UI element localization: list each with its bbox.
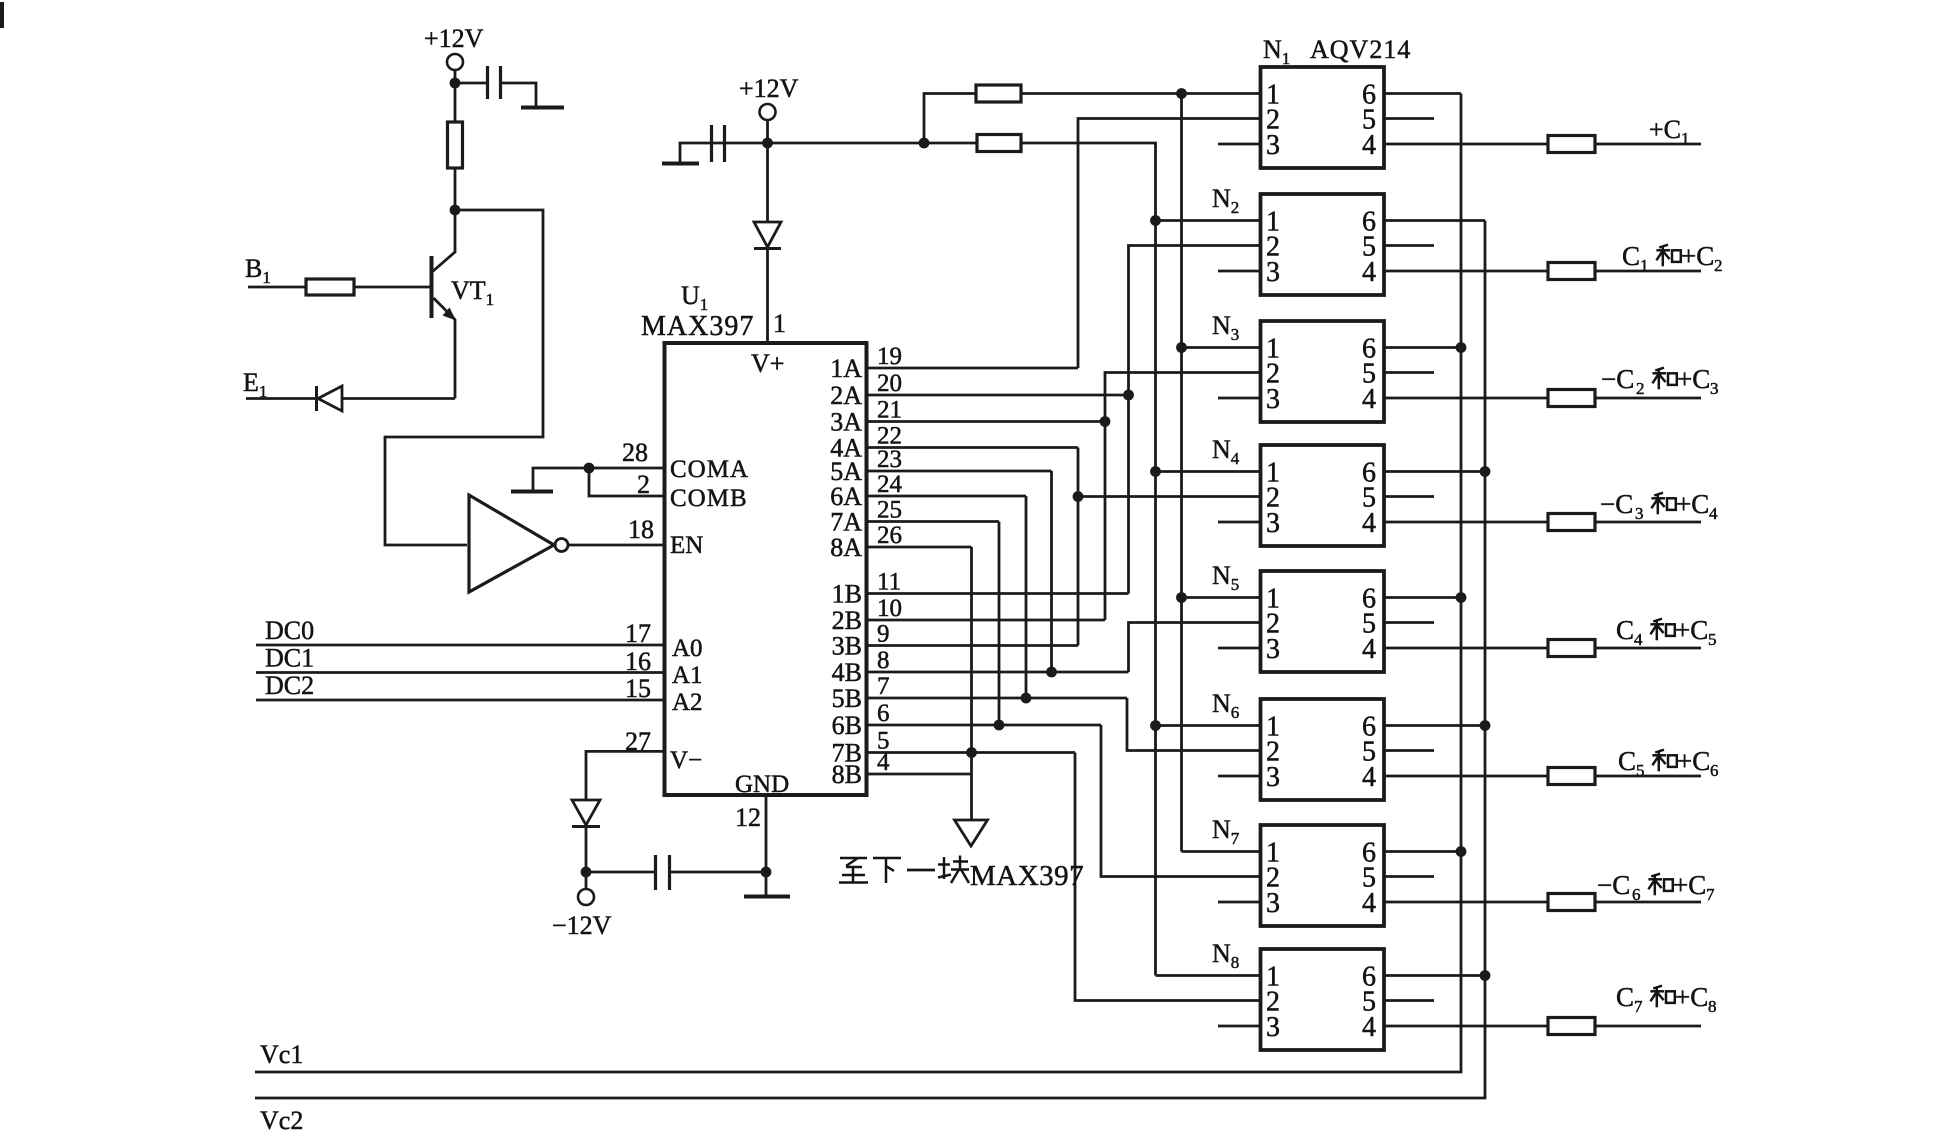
svg-text:3B: 3B <box>832 632 862 661</box>
wire +12V terminal to node <box>454 70 457 79</box>
wire N3 pin5 stub <box>1384 371 1434 374</box>
wire N5 pin3 stub <box>1218 647 1261 650</box>
wire channel6: 6A down to 5B <box>1025 496 1028 698</box>
terminal circle +12V mux <box>760 104 776 120</box>
svg-text:DC0: DC0 <box>265 616 314 645</box>
svg-text:6: 6 <box>877 700 890 727</box>
wire N1 pin4 output to resistor <box>1384 143 1548 146</box>
wire rail to capacitor <box>710 142 768 145</box>
svg-text:C: C <box>1616 982 1634 1012</box>
wire N8 pin6 to collector bus <box>1384 974 1485 977</box>
svg-text:6B: 6B <box>832 711 862 740</box>
svg-text:1: 1 <box>1681 129 1690 148</box>
svg-text:+C: +C <box>1675 615 1708 645</box>
svg-text:11: 11 <box>877 569 901 596</box>
wire output 2 <box>1595 270 1701 273</box>
junction dot 3A on channel3 <box>1100 416 1111 427</box>
svg-text:+C: +C <box>1675 982 1708 1012</box>
svg-text:8: 8 <box>1708 997 1717 1016</box>
svg-text:3A: 3A <box>830 408 862 437</box>
svg-text:4B: 4B <box>832 658 862 687</box>
svg-text:A1: A1 <box>672 662 703 689</box>
svg-text:5: 5 <box>1636 761 1645 780</box>
svg-text:DC1: DC1 <box>265 644 314 673</box>
junction dot GND node <box>761 867 772 878</box>
wire pin6 collector bus odd (to Vc1) <box>255 94 1461 1073</box>
diode D (V- supply) <box>572 800 600 825</box>
wire -12V node to capacitor <box>586 871 654 874</box>
junction dot 2A on channel2 <box>1123 390 1134 401</box>
wire 2B (pin 10) stub from IC <box>867 619 1106 622</box>
wire 4B (pin 8) stub from IC <box>867 671 1129 674</box>
wire channel6 dropper 5B to N6 pin2 <box>1127 698 1261 751</box>
wire 7B (pin 5) stub from IC <box>867 751 1076 754</box>
svg-text:3: 3 <box>1266 384 1280 415</box>
resistor R2 (N even pin1 feed) <box>977 135 1021 152</box>
svg-text:Vc2: Vc2 <box>260 1106 303 1133</box>
svg-text:3: 3 <box>1266 130 1280 161</box>
wire channel1 vertical (1A to N1 pin2) <box>1078 119 1261 369</box>
wire N5 pin1 from bus <box>1182 596 1261 599</box>
resistor R1 (N odd pin1 feed) <box>976 85 1021 102</box>
svg-text:−C: −C <box>1597 870 1630 900</box>
svg-text:4: 4 <box>1634 630 1643 649</box>
svg-text:6: 6 <box>1710 761 1719 780</box>
net label output 3 <box>1601 364 1719 398</box>
capacitor C (top-left decoupling) <box>486 66 489 99</box>
wire base to resistor <box>354 286 430 289</box>
wire B1 to resistor <box>248 286 306 289</box>
optocoupler N8 AQV214 body <box>1261 949 1385 1050</box>
wire output 3 <box>1595 397 1701 400</box>
svg-text:3: 3 <box>1266 257 1280 288</box>
wire 3B (pin 9) stub from IC <box>867 644 1079 647</box>
wire node to resistor R (collector) <box>454 87 457 122</box>
wire N8 pin4 output to resistor <box>1384 1025 1548 1028</box>
svg-text:25: 25 <box>877 497 902 524</box>
svg-text:V+: V+ <box>751 349 784 378</box>
wire N2 pin5 stub <box>1384 244 1434 247</box>
svg-text:MAX397: MAX397 <box>970 860 1084 892</box>
wire 4A (pin 22) <box>867 446 1079 449</box>
svg-text:8A: 8A <box>830 533 862 562</box>
svg-text:24: 24 <box>877 471 903 498</box>
diode D (V+ pin 1) <box>766 143 769 222</box>
capacitor C (V- supply) <box>654 855 657 890</box>
resistor R out4 <box>1548 514 1595 531</box>
svg-text:3: 3 <box>1635 504 1644 523</box>
wire 8B (pin 4) stub from IC <box>867 773 972 776</box>
svg-text:C: C <box>1622 241 1640 271</box>
svg-text:18: 18 <box>628 515 654 544</box>
terminal circle +12V <box>447 54 463 70</box>
wire N6 pin3 stub <box>1218 775 1261 778</box>
svg-text:3: 3 <box>1266 1012 1280 1043</box>
wire N4 pin2 <box>1078 495 1261 498</box>
wire N8 pin3 stub <box>1218 1025 1261 1028</box>
wire channel8 dropper 7B to N8 pin2 <box>1075 753 1261 1001</box>
wire channel7: 7A down to 6B <box>998 522 1001 726</box>
svg-text:9: 9 <box>877 621 890 648</box>
terminal circle -12V <box>578 889 594 905</box>
wire N6 pin1 from bus <box>1156 724 1261 727</box>
svg-text:C: C <box>1616 615 1634 645</box>
net label output 1 (+C1) <box>1649 115 1690 148</box>
svg-text:20: 20 <box>877 370 902 397</box>
wire even bus to N8 pin1 <box>1156 974 1261 977</box>
wire emitter down <box>454 319 457 399</box>
svg-text:A2: A2 <box>672 689 703 716</box>
ground (top-left) <box>521 106 564 110</box>
junction dot +12V rail <box>762 138 773 149</box>
wire V- pin 27 <box>586 751 665 800</box>
svg-text:8: 8 <box>877 647 890 674</box>
svg-text:5: 5 <box>1708 630 1717 649</box>
svg-text:MAX397: MAX397 <box>641 311 754 342</box>
svg-text:4: 4 <box>1362 762 1376 793</box>
optocoupler N5 AQV214 body <box>1261 571 1385 672</box>
wire N4 pin1 from bus <box>1156 470 1261 473</box>
svg-text:2: 2 <box>637 470 650 499</box>
wire N2 pin4 output to resistor <box>1384 270 1548 273</box>
svg-text:4: 4 <box>1362 634 1376 665</box>
svg-text:4: 4 <box>1362 257 1376 288</box>
junction dots even pin1 bus <box>1150 215 1161 226</box>
svg-text:3: 3 <box>1266 762 1280 793</box>
svg-text:+C: +C <box>1673 870 1706 900</box>
junction dot below +12V terminal <box>450 78 461 89</box>
resistor R out5 <box>1548 640 1595 657</box>
svg-text:+C: +C <box>1677 746 1710 776</box>
svg-text:1A: 1A <box>830 354 862 383</box>
svg-text:3: 3 <box>1266 634 1280 665</box>
wire N2 pin3 stub <box>1218 270 1261 273</box>
wire pin6 collector bus even (to Vc2) <box>255 221 1485 1099</box>
svg-text:1B: 1B <box>832 580 862 609</box>
svg-text:28: 28 <box>622 438 648 467</box>
wire N4 pin6 to collector bus <box>1384 470 1485 473</box>
ground (mux supply) <box>662 162 699 166</box>
net label output 8 <box>1616 982 1717 1016</box>
wire 2A (pin 20) <box>867 394 1129 397</box>
wire channel5: 5A down to 4B <box>1050 471 1053 672</box>
junction dot odd pin1 bus top <box>1176 88 1187 99</box>
net label output 2 <box>1622 241 1723 275</box>
svg-text:23: 23 <box>877 446 902 473</box>
wire DC0 to A0 pin <box>256 644 665 647</box>
transistor Q VT1 emitter lead with arrow <box>434 298 456 320</box>
inverter U2 output bubble <box>555 539 568 552</box>
transistor Q VT1 collector lead <box>454 210 457 253</box>
wire 8A (pin 26) <box>867 546 972 549</box>
wire N7 pin5 stub <box>1384 875 1434 878</box>
svg-text:3: 3 <box>1266 508 1280 539</box>
svg-text:DC2: DC2 <box>265 671 314 700</box>
wire N3 pin4 output to resistor <box>1384 397 1548 400</box>
svg-text:4: 4 <box>1709 504 1718 523</box>
svg-text:C: C <box>1618 746 1636 776</box>
svg-text:3: 3 <box>1266 888 1280 919</box>
svg-text:19: 19 <box>877 343 902 370</box>
wire capacitor to ground <box>502 83 536 106</box>
wire N3 pin3 stub <box>1218 397 1261 400</box>
capacitor C (mux supply) <box>710 125 713 162</box>
wire 3A (pin 21) <box>867 420 1106 423</box>
svg-text:7: 7 <box>1634 997 1643 1016</box>
wire channel5 riser 4B to N5 pin2 <box>1129 623 1261 673</box>
optocoupler N7 AQV214 body <box>1261 825 1385 926</box>
wire -12V node to terminal <box>585 872 588 889</box>
wire 1A (pin 19) <box>867 367 1079 370</box>
wire N1 pin6 to collector bus <box>1384 92 1461 95</box>
resistor R out6 <box>1548 768 1595 785</box>
wire N6 pin6 to collector bus <box>1384 724 1485 727</box>
wire odd pin1 bus <box>1180 94 1183 852</box>
ground (COMA) <box>511 490 553 494</box>
junction dot 6A joins 5B <box>1021 693 1032 704</box>
junction dot 7A joins 6B <box>994 720 1005 731</box>
wire output 4 <box>1595 521 1701 524</box>
wire capacitor to ground (mux) <box>680 143 710 162</box>
svg-text:8B: 8B <box>832 760 862 789</box>
svg-text:−C: −C <box>1600 489 1633 519</box>
optocoupler N6 AQV214 body <box>1261 699 1385 800</box>
svg-text:7: 7 <box>877 673 890 700</box>
wire inverter output to EN pin 18 <box>568 544 665 547</box>
ground (GND pin) <box>744 895 790 899</box>
svg-text:2: 2 <box>1714 256 1723 275</box>
wire +12V rail to resistor R2 and bus corner <box>768 142 978 145</box>
wire node to capacitor C (top-left) <box>455 82 486 85</box>
junction dot -12V node <box>581 867 592 878</box>
svg-text:26: 26 <box>877 522 902 549</box>
resistor R base (B1) <box>306 279 354 295</box>
wire odd pin1 bus junctions <box>1176 342 1187 353</box>
wire DC1 to A1 pin <box>256 671 665 674</box>
svg-text:−C: −C <box>1601 364 1634 394</box>
wire 7A (pin 25) <box>867 520 1000 523</box>
svg-text:4: 4 <box>1362 888 1376 919</box>
svg-text:16: 16 <box>625 647 651 676</box>
svg-text:27: 27 <box>625 727 651 756</box>
wire channel2 vertical (N2 pin2 - 2A - 1B) <box>1129 246 1261 594</box>
wire COMA node to ground <box>533 468 589 490</box>
svg-text:4: 4 <box>1362 508 1376 539</box>
svg-text:5B: 5B <box>832 684 862 713</box>
svg-text:2A: 2A <box>830 381 862 410</box>
resistor R out2 <box>1548 263 1595 280</box>
wire output 6 <box>1595 775 1701 778</box>
wire N8 pin5 stub <box>1384 999 1434 1002</box>
op-amp/mux IC U1 MAX397 body <box>665 343 867 795</box>
wire N6 pin4 output to resistor <box>1384 775 1548 778</box>
wire N7 pin6 to collector bus <box>1384 850 1461 853</box>
wire COMA node to COMB pin 2 <box>589 468 665 496</box>
svg-text:V−: V− <box>670 747 702 774</box>
wire 6A (pin 24) <box>867 495 1027 498</box>
resistor R collector pull-up <box>448 122 463 168</box>
svg-text:+C: +C <box>1681 241 1714 271</box>
wire N1 pin3 stub <box>1218 143 1261 146</box>
svg-text:−12V: −12V <box>552 911 612 940</box>
svg-text:+12V: +12V <box>739 74 799 103</box>
wire COMA pin 28 <box>589 467 665 470</box>
wire resistor to collector node <box>454 168 457 210</box>
junction dots pin6 even bus <box>1480 466 1491 477</box>
junction dot 5A joins 4B <box>1046 667 1057 678</box>
wire 5A (pin 23) <box>867 470 1052 473</box>
arrow to next MAX397 stage <box>955 820 988 846</box>
svg-text:12: 12 <box>735 803 761 832</box>
inverter U2 triangle <box>469 495 554 592</box>
svg-text:COMB: COMB <box>670 485 748 512</box>
wire N5 pin6 to collector bus <box>1384 596 1461 599</box>
wire 1B (pin 11) stub from IC <box>867 592 1129 595</box>
wire +12V terminal down to rail <box>766 120 769 143</box>
svg-text:4: 4 <box>1362 384 1376 415</box>
wire N7 pin4 output to resistor <box>1384 901 1548 904</box>
wire N2 pin6 to collector bus <box>1384 219 1485 222</box>
svg-text:+C: +C <box>1676 489 1709 519</box>
wire 6B (pin 6) stub from IC <box>867 724 1102 727</box>
wire N6 pin5 stub <box>1384 749 1434 752</box>
resistor R out8 <box>1548 1018 1595 1035</box>
wire N7 pin3 stub <box>1218 901 1261 904</box>
wire N1 pin5 stub <box>1384 117 1434 120</box>
svg-text:4: 4 <box>1362 130 1376 161</box>
junction dot N4 pin2 on channel4 <box>1073 491 1084 502</box>
svg-text:6: 6 <box>1632 885 1641 904</box>
wire R1 to N1 pin1 <box>1021 92 1261 95</box>
wire collector node to inverter input (right-down-left-down) <box>385 210 543 545</box>
svg-text:1: 1 <box>773 309 786 338</box>
svg-text:COMA: COMA <box>670 456 749 483</box>
wire branch up to resistor R1 <box>924 94 976 144</box>
svg-text:AQV214: AQV214 <box>1310 35 1411 64</box>
net label output 4 <box>1600 489 1718 523</box>
label to-next-MAX397 (Chinese) <box>839 858 868 883</box>
optocoupler N3 AQV214 body <box>1261 321 1385 422</box>
junction dots pin6 odd bus <box>1456 342 1467 353</box>
wire diode to E1 <box>246 397 316 400</box>
wire channel8: 8A down through 7B to next-stage arrow <box>970 547 973 820</box>
wire odd bus to N7 pin1 <box>1182 850 1261 853</box>
wire channel7 dropper 6B to N7 pin2 <box>1101 725 1261 877</box>
svg-text:4: 4 <box>877 749 890 776</box>
wire diode to IC V+ pin <box>766 250 769 343</box>
svg-text:A0: A0 <box>672 635 703 662</box>
optocoupler N4 AQV214 body <box>1261 445 1385 546</box>
wire DC2 to A2 pin <box>256 699 665 702</box>
wire R2 to even bus corner <box>1021 143 1156 976</box>
junction dot rail/resistor-R1 branch <box>919 138 930 149</box>
wire N5 pin4 output to resistor <box>1384 647 1548 650</box>
wire N5 pin5 stub <box>1384 621 1434 624</box>
svg-text:10: 10 <box>877 595 902 622</box>
wire output 8 <box>1595 1025 1701 1028</box>
resistor R out7 <box>1548 894 1595 911</box>
net label output 6 <box>1618 746 1719 780</box>
wire channel4 vertical (4A - N4 pin2 - 3B) <box>1077 448 1080 646</box>
wire emitter to diode <box>342 397 455 400</box>
wire capacitor to GND node <box>671 871 766 874</box>
svg-text:+C: +C <box>1677 364 1710 394</box>
svg-text:7: 7 <box>1706 885 1715 904</box>
wire 5B (pin 7) stub from IC <box>867 697 1128 700</box>
svg-text:2: 2 <box>1636 379 1645 398</box>
wire N4 pin4 output to resistor <box>1384 521 1548 524</box>
wire output 7 <box>1595 901 1701 904</box>
wire N3 pin1 from bus <box>1182 346 1261 349</box>
junction dot collector node <box>450 205 461 216</box>
diode D (E1 line) cathode bar <box>315 386 318 411</box>
wire GND pin 12 down <box>765 795 768 895</box>
net label output 7 <box>1597 870 1715 904</box>
svg-text:21: 21 <box>877 397 902 424</box>
junction dot 8A joins 7B <box>966 747 977 758</box>
resistor R out3 <box>1548 390 1595 407</box>
wire N2 pin1 from bus <box>1156 219 1261 222</box>
net label output 5 <box>1616 615 1717 649</box>
svg-text:+C: +C <box>1649 115 1681 144</box>
transistor Q VT1 base bar <box>430 256 434 318</box>
svg-text:17: 17 <box>625 619 651 648</box>
wire N4 pin3 stub <box>1218 521 1261 524</box>
svg-text:1: 1 <box>1640 256 1649 275</box>
wire output 1 <box>1595 143 1701 146</box>
scan-edge mark <box>0 2 4 28</box>
junction dot COMA node <box>584 463 595 474</box>
wire N4 pin5 stub <box>1384 495 1434 498</box>
wire output 5 <box>1595 647 1701 650</box>
svg-text:15: 15 <box>625 674 651 703</box>
wire N3 pin6 to collector bus <box>1384 346 1461 349</box>
resistor R out1 <box>1548 136 1595 153</box>
svg-text:3: 3 <box>1710 379 1719 398</box>
svg-text:+12V: +12V <box>424 24 484 53</box>
svg-text:EN: EN <box>670 532 703 559</box>
diode D (E1 line) triangle <box>318 386 342 411</box>
svg-text:GND: GND <box>735 771 789 798</box>
optocoupler N1 AQV214 body <box>1261 67 1385 168</box>
optocoupler N2 AQV214 body <box>1261 194 1385 295</box>
svg-text:Vc1: Vc1 <box>260 1040 303 1069</box>
wire channel3 vertical (N3 pin2 - 3A - 2B) <box>1105 373 1261 621</box>
svg-text:4: 4 <box>1362 1012 1376 1043</box>
